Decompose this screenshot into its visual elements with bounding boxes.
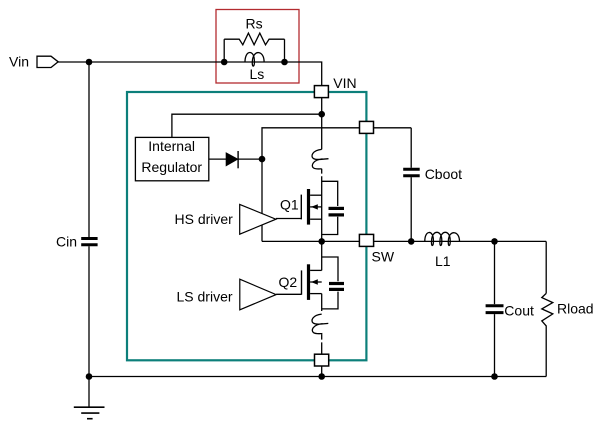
- inductor L1: [425, 232, 460, 245]
- red box around Rs/Ls: [216, 10, 299, 84]
- wire: boot node down to SW rail (behind HS driver): [261, 159, 263, 241]
- wire: Vin rail top: [58, 62, 322, 149]
- Internal Regulator block U1: [135, 137, 208, 180]
- resistor Rs: [224, 33, 284, 45]
- pin pad BOOT: [360, 121, 374, 133]
- node: ground rail left junction: [86, 373, 93, 380]
- svg-text:VIN: VIN: [333, 75, 356, 91]
- IC boundary box (teal): [127, 92, 366, 360]
- svg-text:Cin: Cin: [56, 233, 77, 249]
- node: Vin rail junction: [86, 59, 93, 66]
- svg-text:L1: L1: [435, 253, 451, 269]
- op-amp LS driver: [240, 279, 276, 310]
- bond-wire inductor top (VIN internal): [312, 149, 329, 169]
- wire: boot node up and right to Cboot (crosses VIN rail): [262, 128, 411, 159]
- transistor Q1: [276, 189, 322, 225]
- svg-text:SW: SW: [372, 248, 395, 264]
- transistor Q2: [276, 264, 322, 300]
- node: Q1 source / SW junction: [318, 238, 325, 245]
- Q1 parasitic cap branch: [322, 181, 338, 234]
- svg-text:HS driver: HS driver: [175, 211, 234, 227]
- wire: SW to Q2 drain: [321, 241, 323, 270]
- wire: Q2 source down: [321, 294, 323, 311]
- node: Cboot / SW junction: [408, 238, 415, 245]
- node: Cout bottom junction: [491, 373, 498, 380]
- svg-text:Ls: Ls: [250, 66, 265, 82]
- op-amp HS driver: [240, 204, 276, 234]
- capacitor Cin: [81, 239, 97, 245]
- inductor Ls: [245, 52, 264, 66]
- wire: coil to bottom pad: [321, 334, 323, 353]
- wire: Rs right stub: [284, 39, 286, 62]
- wire: Cin bottom to ground rail: [88, 246, 90, 376]
- Q2 parasitic cap branch: [322, 257, 338, 309]
- svg-text:LS driver: LS driver: [177, 288, 233, 304]
- svg-text:Vin: Vin: [9, 54, 29, 70]
- resistor Rload: [542, 293, 553, 376]
- capacitor Cout: [486, 241, 504, 376]
- wire: Rs left stub: [223, 39, 225, 62]
- ground: [74, 377, 105, 419]
- wire: SW rail: [262, 240, 546, 242]
- svg-text:Regulator: Regulator: [141, 159, 202, 175]
- pin pad SW: [359, 234, 373, 246]
- svg-text:Cout: Cout: [504, 303, 534, 319]
- diode D1: [226, 153, 237, 166]
- node: junction dot below VIN pad: [318, 111, 325, 118]
- node: Rs/Ls left junction: [221, 59, 228, 66]
- wire: ground rail: [89, 376, 546, 378]
- wire: bottom pad to ground rail: [321, 366, 323, 377]
- svg-text:Rs: Rs: [246, 16, 263, 32]
- wire: left drop to Cin top: [88, 62, 90, 237]
- wire: to Rload: [545, 241, 547, 293]
- capacitor Cboot: [403, 128, 420, 242]
- Vin connector: [37, 56, 58, 67]
- svg-text:Rload: Rload: [557, 301, 594, 317]
- wire: coil to Q1 drain rail (with small gap): [321, 169, 323, 242]
- node: Rs/Ls right junction: [281, 59, 288, 66]
- svg-text:Cboot: Cboot: [425, 166, 462, 182]
- pin pad VIN: [314, 86, 328, 98]
- wire: diode to boot node: [238, 158, 262, 160]
- svg-text:Q1: Q1: [280, 197, 299, 213]
- node: ground rail center junction: [318, 373, 325, 380]
- wire: Internal Regulator top to VIN rail: [172, 114, 322, 137]
- bond-wire inductor bottom (PGND internal): [312, 314, 328, 334]
- wire: regulator output to diode: [209, 158, 226, 160]
- svg-text:Internal: Internal: [148, 138, 195, 154]
- node: boot junction: [259, 156, 266, 163]
- pin pad PGND: [315, 354, 329, 366]
- node: L1 / Cout junction: [491, 238, 498, 245]
- svg-text:Q2: Q2: [279, 274, 298, 290]
